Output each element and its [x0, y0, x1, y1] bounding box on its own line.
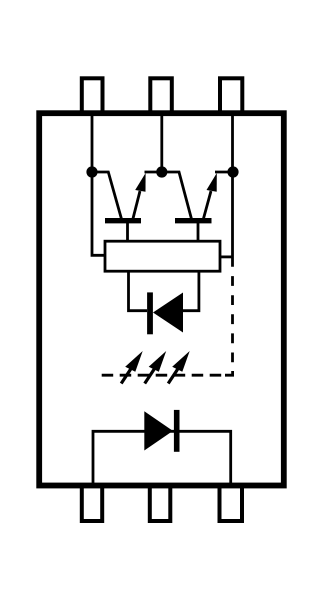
transistor Q2 source arrow — [204, 173, 217, 219]
photon arrow 2 — [145, 351, 167, 384]
pin 2 (top middle) — [150, 78, 172, 114]
dashed corner piece — [225, 371, 233, 375]
transistor Q1 gate wire — [126, 223, 129, 242]
dashed vertical optical boundary — [231, 257, 234, 362]
wire pin1 to control box (left rail) — [92, 112, 105, 255]
pin 6 (bottom right) — [220, 486, 243, 521]
pin 4 (bottom left) — [82, 486, 102, 521]
wire pin3 down (right rail) — [231, 112, 234, 257]
node C (junction dot right) — [227, 166, 238, 177]
wire pin2 down to node B — [160, 112, 163, 172]
wire box bottom right to photodiode — [183, 271, 199, 311]
photon arrow 3 — [168, 351, 190, 384]
photodiode D2 triangle — [153, 293, 183, 333]
photon arrow 1 — [121, 351, 143, 384]
LED D1 cathode bar — [174, 410, 180, 452]
wire Q2 arrow to node C — [215, 171, 233, 174]
LED D1 triangle — [144, 411, 173, 450]
transistor Q2 gate bar — [175, 218, 212, 223]
wire Q1 arrow to node B — [145, 171, 162, 174]
transistor Q1 drain lead — [92, 172, 122, 219]
LED D1 wire loop — [93, 431, 231, 484]
transistor Q1 source arrow — [133, 173, 146, 219]
transistor Q1 gate bar — [105, 218, 141, 223]
node A (junction dot left) — [86, 166, 97, 177]
wire box bottom left to photodiode — [129, 271, 148, 311]
transistor Q2 gate wire — [197, 223, 200, 242]
node B (junction dot middle) — [156, 166, 167, 177]
package outline — [39, 113, 284, 485]
photodiode D2 cathode bar — [147, 292, 153, 334]
transistor Q2 drain lead — [162, 172, 192, 219]
control circuit box U1 — [105, 241, 220, 271]
pin 3 (top right) — [220, 78, 242, 114]
dashed horizontal optical boundary — [102, 374, 222, 377]
wire box to right rail — [220, 255, 233, 258]
pin 1 (top left) — [82, 78, 103, 114]
pin 5 (bottom middle) — [150, 486, 171, 521]
